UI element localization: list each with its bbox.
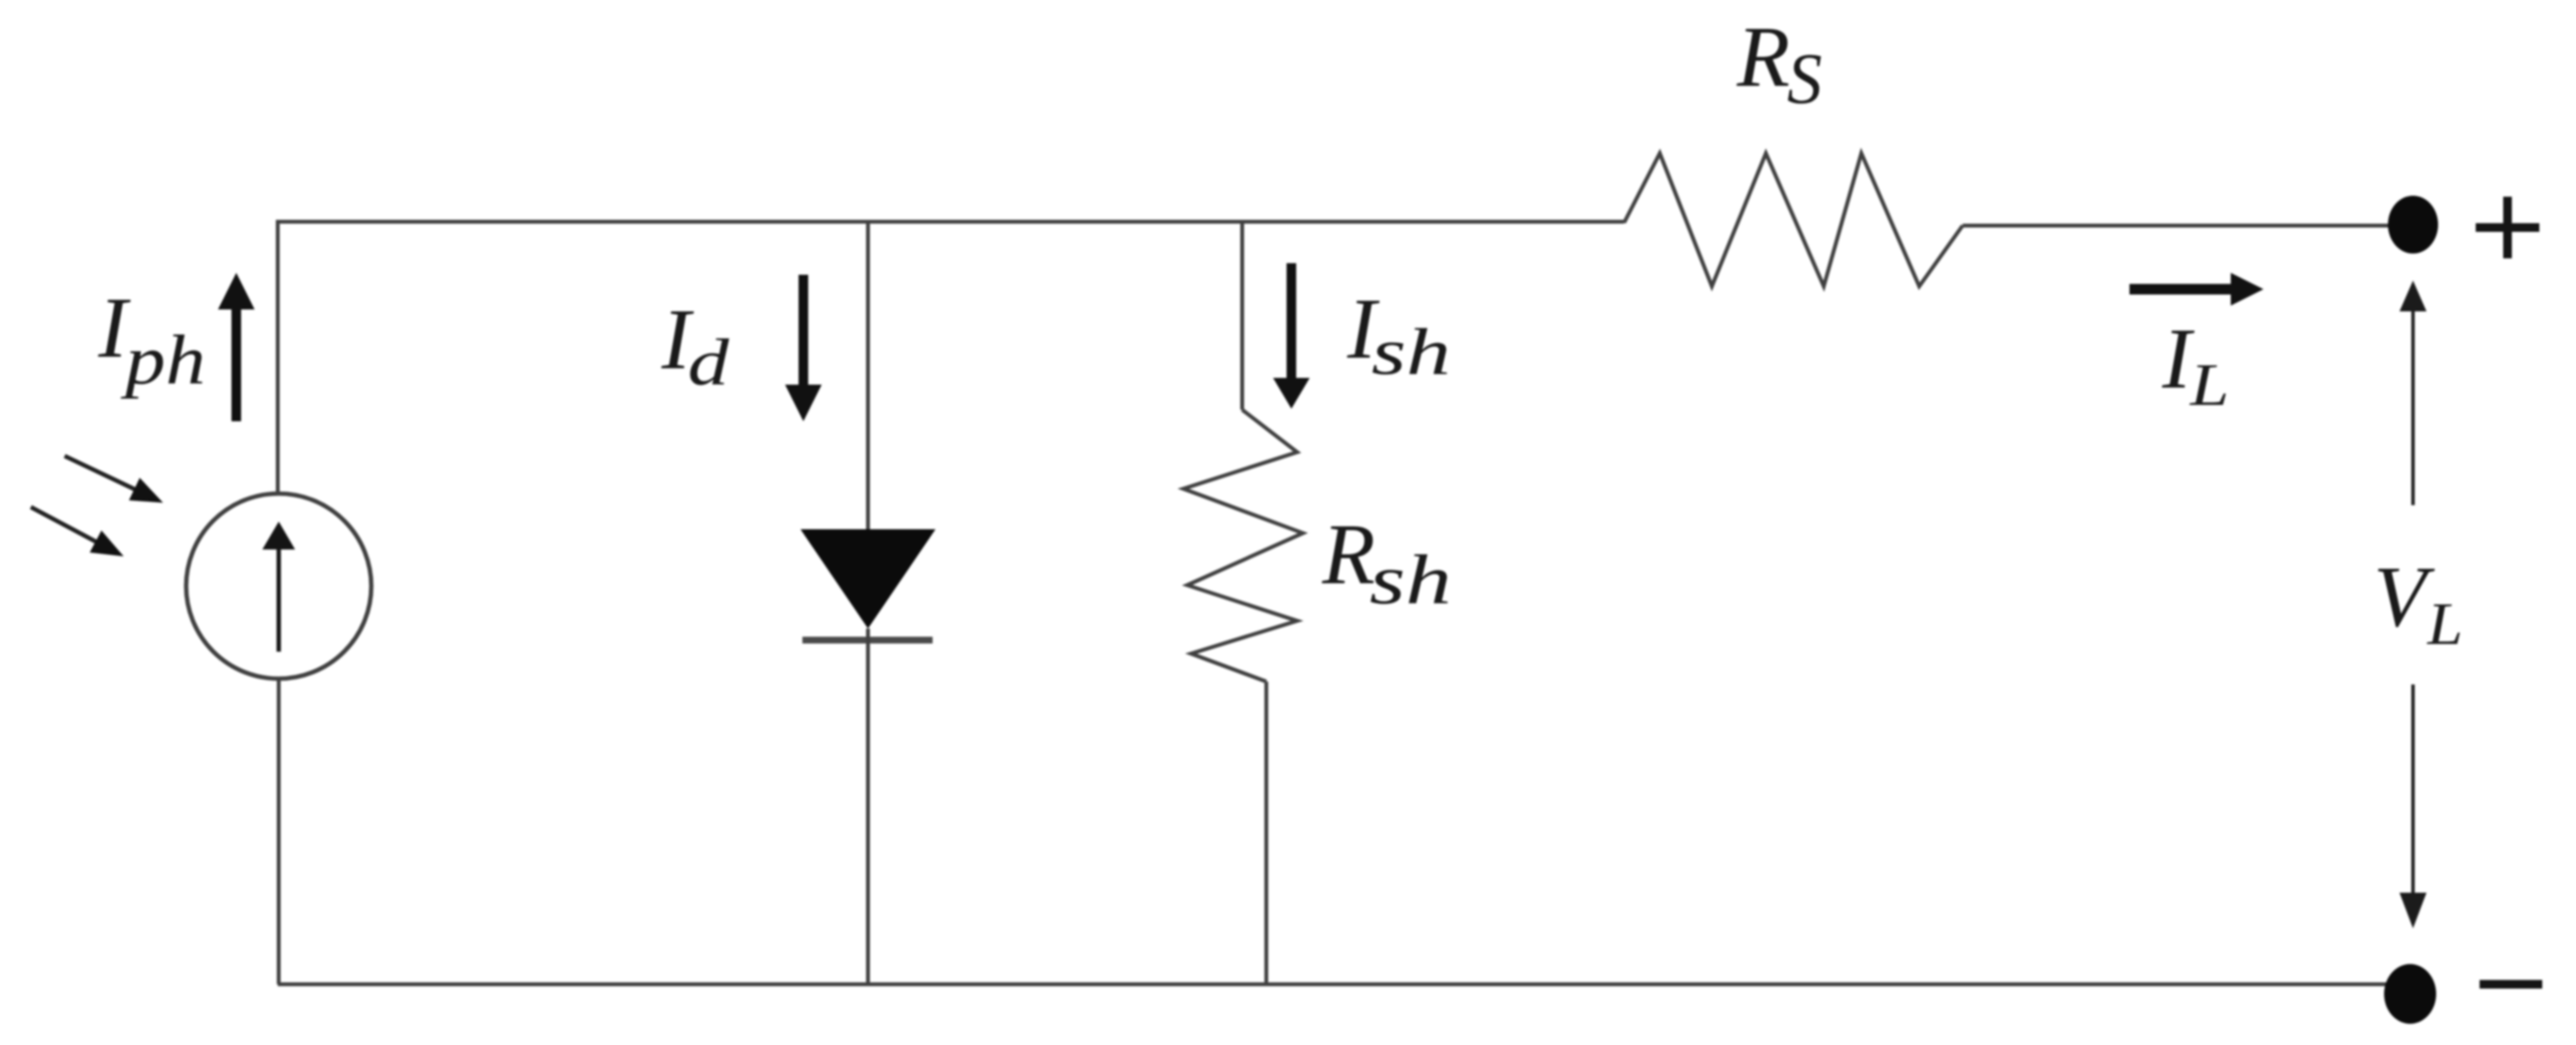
light arrow 1 (photon): [59, 444, 168, 514]
svg-text:sh: sh: [1369, 542, 1451, 619]
plus sign: [2476, 197, 2539, 258]
wire Rs to + terminal: [1963, 224, 2401, 228]
svg-text:ph: ph: [121, 321, 205, 399]
wire top bus (node A: from source top to Rs): [278, 220, 1624, 224]
svg-text:V: V: [2373, 549, 2435, 645]
current source Iph circle: [186, 494, 371, 679]
arrow Iph (upward thick arrow): [231, 307, 241, 421]
arrow IL (rightward thick arrow): [2129, 284, 2233, 295]
wire Rsh bottom to bottom bus: [1264, 682, 1268, 984]
wire diode bottom to bottom bus: [866, 629, 870, 984]
svg-text:R: R: [1736, 10, 1790, 105]
wire current source bottom to bottom bus: [277, 679, 281, 984]
svg-text:sh: sh: [1371, 314, 1451, 389]
current source internal arrow: [277, 546, 282, 652]
wire left vertical (top wire down to current source): [276, 220, 280, 495]
svg-text:L: L: [2427, 590, 2463, 656]
svg-text:d: d: [688, 326, 730, 399]
node - terminal dot: [2384, 964, 2436, 1024]
svg-text:R: R: [1321, 507, 1375, 603]
arrow Ish (downward thick arrow): [1287, 263, 1296, 378]
wire Rsh branch top (junction at top bus down to Rsh): [1240, 222, 1244, 410]
wire diode branch top (junction at top bus to diode): [866, 222, 870, 531]
arrow Id (downward thick arrow): [799, 275, 808, 385]
resistor RS zigzag: [1624, 153, 1963, 286]
svg-text:S: S: [1787, 39, 1822, 119]
light arrow 2 (photon): [25, 496, 129, 568]
resistor Rsh zigzag: [1183, 410, 1303, 682]
diode D triangle: [800, 529, 935, 629]
diode D cathode bar: [802, 637, 933, 644]
svg-text:L: L: [2189, 352, 2229, 418]
arrow VL up: [2411, 307, 2415, 505]
minus sign: [2480, 980, 2542, 989]
arrow VL down: [2411, 684, 2415, 897]
node + terminal dot: [2388, 196, 2438, 254]
wire bottom bus: [278, 982, 2392, 986]
